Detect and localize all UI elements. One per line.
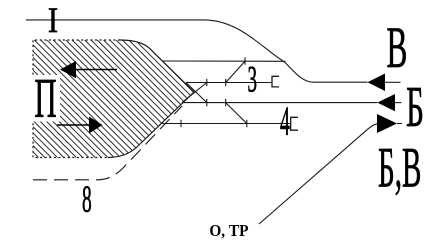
- turnout diagonal track Б down to track 4: [226, 103, 247, 124]
- dead-end stop bracket of track 4: [291, 117, 298, 130]
- white label box in yard: [31, 75, 60, 122]
- svg-text:В: В: [386, 16, 407, 81]
- insulated joint tick on upper siding: [244, 57, 246, 64]
- right arrow (even direction) shaft: [57, 124, 90, 126]
- svg-text:Б: Б: [406, 75, 424, 140]
- dead-end stop bracket of track 3: [272, 76, 279, 87]
- joint tick on track 4 (right): [246, 120, 248, 127]
- crossover diagonal from track Б start up to track 3: [182, 83, 207, 103]
- turnout diagonal track 3 to upper siding: [226, 61, 245, 82]
- yard boundary, dotted top/left/bottom edges: [33, 40, 120, 158]
- svg-text:4: 4: [280, 98, 290, 144]
- line stub behind В arrowhead: [385, 81, 401, 83]
- arrowhead to direction Б (left-pointing): [377, 94, 395, 111]
- arrowhead from О,ТР toward Б,В (right-pointing): [377, 114, 397, 133]
- joint tick on track 3 (right): [225, 79, 227, 86]
- track 3 line: [186, 82, 272, 84]
- left arrow (odd direction) shaft: [76, 69, 117, 71]
- joint tick on track Б (right): [225, 99, 227, 106]
- line stub after Б,В arrowhead tip: [397, 123, 402, 125]
- upper siding line from yard throat: [163, 60, 286, 62]
- track I main line with S-curve descending to В line: [26, 20, 368, 82]
- svg-text:О, ТР: О, ТР: [209, 222, 248, 240]
- track 4 line: [161, 123, 291, 125]
- crossover diagonal from track 3 start down to track Б: [186, 83, 207, 103]
- joint tick on track Б (left): [206, 99, 208, 106]
- yard boundary, solid right side (throat): [108, 40, 194, 158]
- diagonal connecting line from О,ТР up to Б,В arrow: [259, 124, 377, 224]
- hatched yard area П (diagonal hatch fill): [33, 40, 194, 158]
- arrowhead to direction В (left-pointing): [368, 74, 386, 92]
- line stub behind Б arrowhead: [395, 102, 402, 104]
- svg-text:3: 3: [247, 60, 256, 100]
- svg-text:Б,В: Б,В: [378, 136, 421, 199]
- svg-text:П: П: [34, 67, 56, 129]
- joint tick on track 4 (left): [180, 120, 182, 127]
- dashed track 8 line along yard edge: [33, 106, 182, 180]
- svg-text:I: I: [48, 1, 58, 41]
- svg-text:8: 8: [82, 178, 92, 221]
- joint tick on track 3 (left): [206, 79, 208, 86]
- left arrow head: [60, 61, 76, 78]
- track Б middle line: [182, 102, 377, 104]
- right arrow head: [89, 117, 103, 134]
